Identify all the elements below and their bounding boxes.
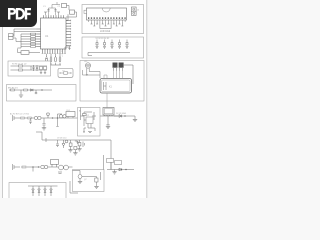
regulator U4 — [95, 178, 98, 182]
buzzer LS1 — [83, 63, 101, 78]
transistor Q3 — [59, 165, 64, 170]
svg-text:U1: U1 — [45, 34, 49, 38]
AC input — [13, 115, 21, 121]
transistor Q6 — [63, 115, 66, 118]
LED frame (box BL) — [9, 183, 66, 203]
LED D5-D8 — [32, 189, 52, 192]
ground — [68, 150, 72, 152]
LCD module DIP outline — [84, 8, 127, 20]
svg-text:R3 R4 C5 Q1 Q2: R3 R4 C5 Q1 Q2 — [12, 64, 26, 66]
ground — [77, 149, 81, 151]
capacitor C7 with ground — [43, 118, 46, 128]
resistor R13 — [83, 114, 87, 116]
ground — [73, 153, 77, 155]
lower rail wire y140 — [36, 118, 111, 170]
zener D3 — [62, 140, 68, 148]
svg-text:S1 S2 S3 S4 S5: S1 S2 S3 S4 S5 — [96, 38, 110, 40]
cap C8 to ground — [107, 116, 110, 126]
svg-text:B1: B1 — [79, 110, 81, 112]
relay RL1 — [66, 112, 75, 117]
relay RL2 — [51, 160, 59, 165]
capacitor C3 C4 bank below U1 — [45, 54, 61, 65]
diode D4 — [119, 168, 127, 171]
wire — [50, 164, 58, 167]
AC input plug J4 — [13, 164, 21, 170]
ground — [94, 186, 98, 188]
varistor RV1 — [28, 117, 32, 119]
svg-text:RL1: RL1 — [67, 110, 70, 112]
keypad frame (box E) — [82, 37, 144, 58]
fuse F3 — [22, 166, 26, 168]
wire — [58, 167, 73, 174]
resistor R11 — [24, 89, 28, 91]
PDF badge — [0, 0, 37, 27]
regulator cell U3 — [69, 140, 84, 153]
corner wire — [70, 181, 78, 193]
fuse holder X1 — [58, 69, 73, 78]
svg-text:U2: U2 — [87, 115, 89, 117]
svg-text:Q7: Q7 — [84, 179, 87, 181]
resistor R7 below U1 — [18, 49, 41, 53]
connector J3 — [9, 34, 14, 37]
U1 bottom pins — [42, 49, 66, 54]
wire — [25, 117, 27, 119]
capacitor C5 — [32, 65, 38, 71]
ground — [133, 119, 137, 121]
microcontroller U1 body — [41, 18, 67, 49]
svg-text:D2 C8 GND: D2 C8 GND — [116, 113, 127, 115]
ground — [78, 181, 82, 183]
resistor R10 — [11, 89, 15, 91]
display module M1 — [100, 79, 132, 94]
bridge BR1 — [41, 165, 50, 169]
transistor Q5 — [59, 115, 62, 118]
LCD wires — [91, 22, 124, 29]
transistor Q4 — [64, 165, 69, 170]
reset circuit right of U1 — [70, 10, 75, 14]
svg-text:F1: F1 — [63, 70, 65, 72]
wire — [114, 170, 116, 172]
power flag VCC — [65, 46, 71, 50]
wire with junction nodes — [44, 114, 66, 119]
key switches row — [96, 40, 129, 49]
terminal block TB1 — [107, 159, 114, 163]
ground — [42, 128, 46, 130]
diode D1 — [31, 89, 43, 91]
svg-text:AC F2 RV1 L1 C7 R12: AC F2 RV1 L1 C7 R12 — [10, 113, 29, 116]
inductor L1 — [34, 116, 44, 119]
svg-text:LCD 16x2: LCD 16x2 — [100, 31, 111, 33]
connector frame J-top (box D) — [82, 5, 144, 34]
keypad bus wire — [88, 53, 130, 56]
resistor R9 — [18, 69, 22, 71]
U1 left pins — [37, 29, 41, 47]
transistor Q7 — [78, 175, 82, 179]
U1 top pins — [44, 15, 64, 18]
U1 right pins — [66, 20, 71, 47]
ground — [106, 127, 110, 129]
connector J2 — [132, 7, 137, 15]
capacitor C12 — [29, 118, 31, 124]
IC U2 — [86, 117, 93, 124]
output frame (box B2) — [73, 170, 105, 192]
resistor R8 — [18, 65, 22, 67]
wire with junctions — [27, 167, 40, 172]
transistor Q1 — [39, 66, 43, 70]
fuse F2 — [21, 117, 25, 119]
ground — [19, 95, 23, 97]
LCD pin stubs — [89, 20, 125, 22]
diode D2 — [119, 115, 126, 118]
crystal circuit above U1 — [44, 2, 60, 15]
transistor Q2 — [43, 66, 47, 70]
svg-text:LS1: LS1 — [84, 61, 87, 63]
relay driver frame (box F) — [8, 61, 51, 76]
ground right — [134, 116, 136, 119]
DIP pin pads — [88, 17, 126, 18]
sensor frame (box H) — [7, 85, 77, 102]
cap C9 — [56, 140, 59, 147]
transformer box T2 — [103, 108, 114, 116]
transformer T1 — [113, 63, 118, 68]
wire — [32, 117, 34, 119]
resistor array R1-R6 — [31, 33, 36, 47]
wire bus left of U1 — [14, 29, 37, 48]
resistor R12 — [47, 113, 49, 118]
svg-text:C9 D3 C10: C9 D3 C10 — [57, 138, 66, 140]
svg-text:IR1 R5 D1: IR1 R5 D1 — [8, 87, 19, 89]
regulator frame (box M) — [78, 108, 101, 137]
driver frame (box G) — [80, 61, 144, 102]
ground — [112, 172, 116, 174]
crystal Y1 — [62, 4, 67, 8]
